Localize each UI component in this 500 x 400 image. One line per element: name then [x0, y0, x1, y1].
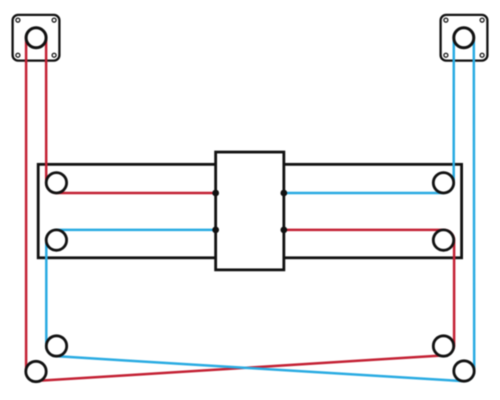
red belt — [26, 36, 454, 381]
idler lower-right — [454, 361, 474, 381]
carriage — [216, 152, 284, 270]
blue belt — [46, 36, 474, 381]
idler upper-right — [433, 336, 453, 356]
motor pulley left — [26, 28, 46, 48]
motor pulley right — [454, 28, 474, 48]
gantry pulley bottom-left — [46, 230, 66, 250]
gantry pulley top-left — [46, 173, 66, 193]
motor frame left — [13, 15, 60, 61]
motor frame right — [441, 15, 488, 61]
gantry beam — [38, 164, 461, 257]
idler lower-left — [26, 361, 46, 381]
idler upper-left — [46, 336, 66, 356]
belt anchor dots — [212, 190, 219, 197]
gantry pulley bottom-right — [433, 230, 453, 250]
gantry pulley top-right — [433, 173, 453, 193]
